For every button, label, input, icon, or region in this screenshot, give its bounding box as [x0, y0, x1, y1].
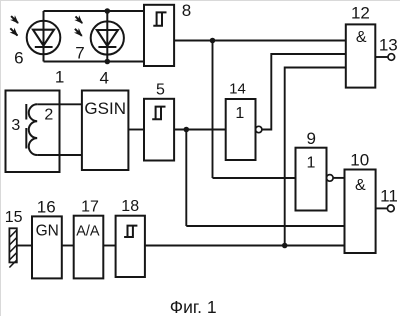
- wire block12 output: [375, 56, 388, 58]
- svg-text:4: 4: [99, 69, 108, 88]
- wire top bus upper: [44, 10, 145, 12]
- block 14 inversion bubble: [256, 126, 262, 132]
- wire node A down: [212, 41, 214, 179]
- photodiode D6 vertical lead: [43, 11, 45, 62]
- svg-text:5: 5: [156, 81, 165, 98]
- svg-text:A/A: A/A: [76, 224, 100, 240]
- wire block10 output: [376, 207, 388, 209]
- wire to block9 input: [213, 177, 296, 179]
- wire GSIN to block5: [128, 129, 144, 131]
- block 1 sensor box: [6, 91, 60, 173]
- photodiode D7 light arrow 1: [76, 16, 83, 23]
- svg-text:15: 15: [5, 209, 23, 226]
- wire coil top to GSIN: [37, 103, 82, 105]
- scan edge artifact top: [0, 0, 400, 2]
- junction dot top of D7: [105, 8, 111, 14]
- photodiode D7 cathode bar: [98, 46, 116, 48]
- photodiode D7 light arrow 2: [75, 29, 82, 36]
- photodiode D6 triangle: [33, 30, 54, 46]
- wire block5 output to block14: [174, 129, 226, 131]
- block 9 inversion bubble: [327, 175, 334, 182]
- wire block18 output to block10 input3: [145, 245, 345, 247]
- svg-text:1: 1: [307, 155, 316, 172]
- svg-text:1: 1: [235, 105, 244, 122]
- block 5 Schmitt trigger box: [144, 99, 174, 161]
- svg-text:9: 9: [306, 129, 315, 148]
- wire coil bottom to GSIN: [37, 154, 82, 156]
- svg-text:&: &: [356, 29, 367, 46]
- svg-text:1: 1: [55, 67, 64, 86]
- svg-text:8: 8: [182, 1, 191, 20]
- wire block18 output riser to block12 input3: [285, 68, 346, 246]
- block 17 A/A box: [74, 216, 104, 279]
- photodiode D7 circle: [91, 21, 124, 54]
- wire block16 to block17: [62, 245, 74, 247]
- svg-text:3: 3: [11, 117, 20, 134]
- svg-text:14: 14: [229, 80, 246, 97]
- block 8 Schmitt trigger box: [144, 5, 174, 66]
- wire node B to block10 input2: [186, 225, 344, 227]
- photodiode D7 triangle: [97, 30, 118, 46]
- scan edge artifact left: [0, 0, 2, 316]
- svg-text:12: 12: [351, 4, 370, 23]
- block 15 hatched transducer: [9, 228, 16, 267]
- svg-text:6: 6: [14, 49, 23, 68]
- coil winding 2: [29, 104, 37, 155]
- block 16 GN box: [32, 216, 62, 278]
- wire block17 to block18: [103, 245, 115, 247]
- block 9 box: [296, 148, 327, 211]
- wire block14 output: [262, 54, 346, 130]
- block 14 box: [226, 99, 256, 160]
- photodiode D7 vertical lead: [106, 11, 108, 62]
- svg-text:2: 2: [44, 106, 53, 123]
- svg-text:&: &: [355, 177, 366, 194]
- junction dot bottom of D7: [105, 59, 111, 65]
- svg-text:Фиг. 1: Фиг. 1: [170, 297, 217, 316]
- svg-text:11: 11: [380, 186, 398, 205]
- svg-text:GN: GN: [36, 222, 59, 239]
- output terminal 13 circle: [388, 54, 395, 61]
- junction dot node A: [210, 38, 216, 44]
- photodiode D6 light arrow 1: [11, 16, 18, 23]
- junction dot node B: [184, 127, 190, 133]
- wire block8 output to block12 input1: [174, 40, 346, 42]
- photodiode D6 light arrow 2: [10, 28, 17, 35]
- block 18 hysteresis symbol: [124, 226, 137, 237]
- svg-text:10: 10: [350, 150, 369, 169]
- svg-text:13: 13: [379, 36, 398, 55]
- junction dot node C: [282, 243, 288, 249]
- wire block9 output to block10 input1: [333, 177, 344, 179]
- svg-text:7: 7: [75, 44, 84, 63]
- block 4 GSIN box: [82, 91, 128, 171]
- block 18 Schmitt trigger box: [116, 216, 145, 277]
- output terminal 11 circle: [387, 205, 394, 212]
- svg-text:18: 18: [121, 198, 139, 215]
- svg-text:GSIN: GSIN: [84, 99, 126, 118]
- block 8 hysteresis symbol: [153, 12, 166, 25]
- core dashed bar 3: [25, 104, 27, 149]
- block 10 AND gate box: [345, 170, 376, 254]
- svg-text:17: 17: [81, 198, 99, 215]
- wire block15 to block16: [17, 245, 32, 247]
- svg-text:16: 16: [37, 198, 56, 217]
- block 5 hysteresis symbol: [152, 107, 165, 120]
- wire top bus lower: [44, 61, 145, 63]
- photodiode D6 circle: [27, 21, 61, 55]
- photodiode D6 cathode bar: [35, 46, 53, 48]
- wire node B down: [185, 130, 187, 227]
- block 12 AND gate box: [346, 24, 376, 87]
